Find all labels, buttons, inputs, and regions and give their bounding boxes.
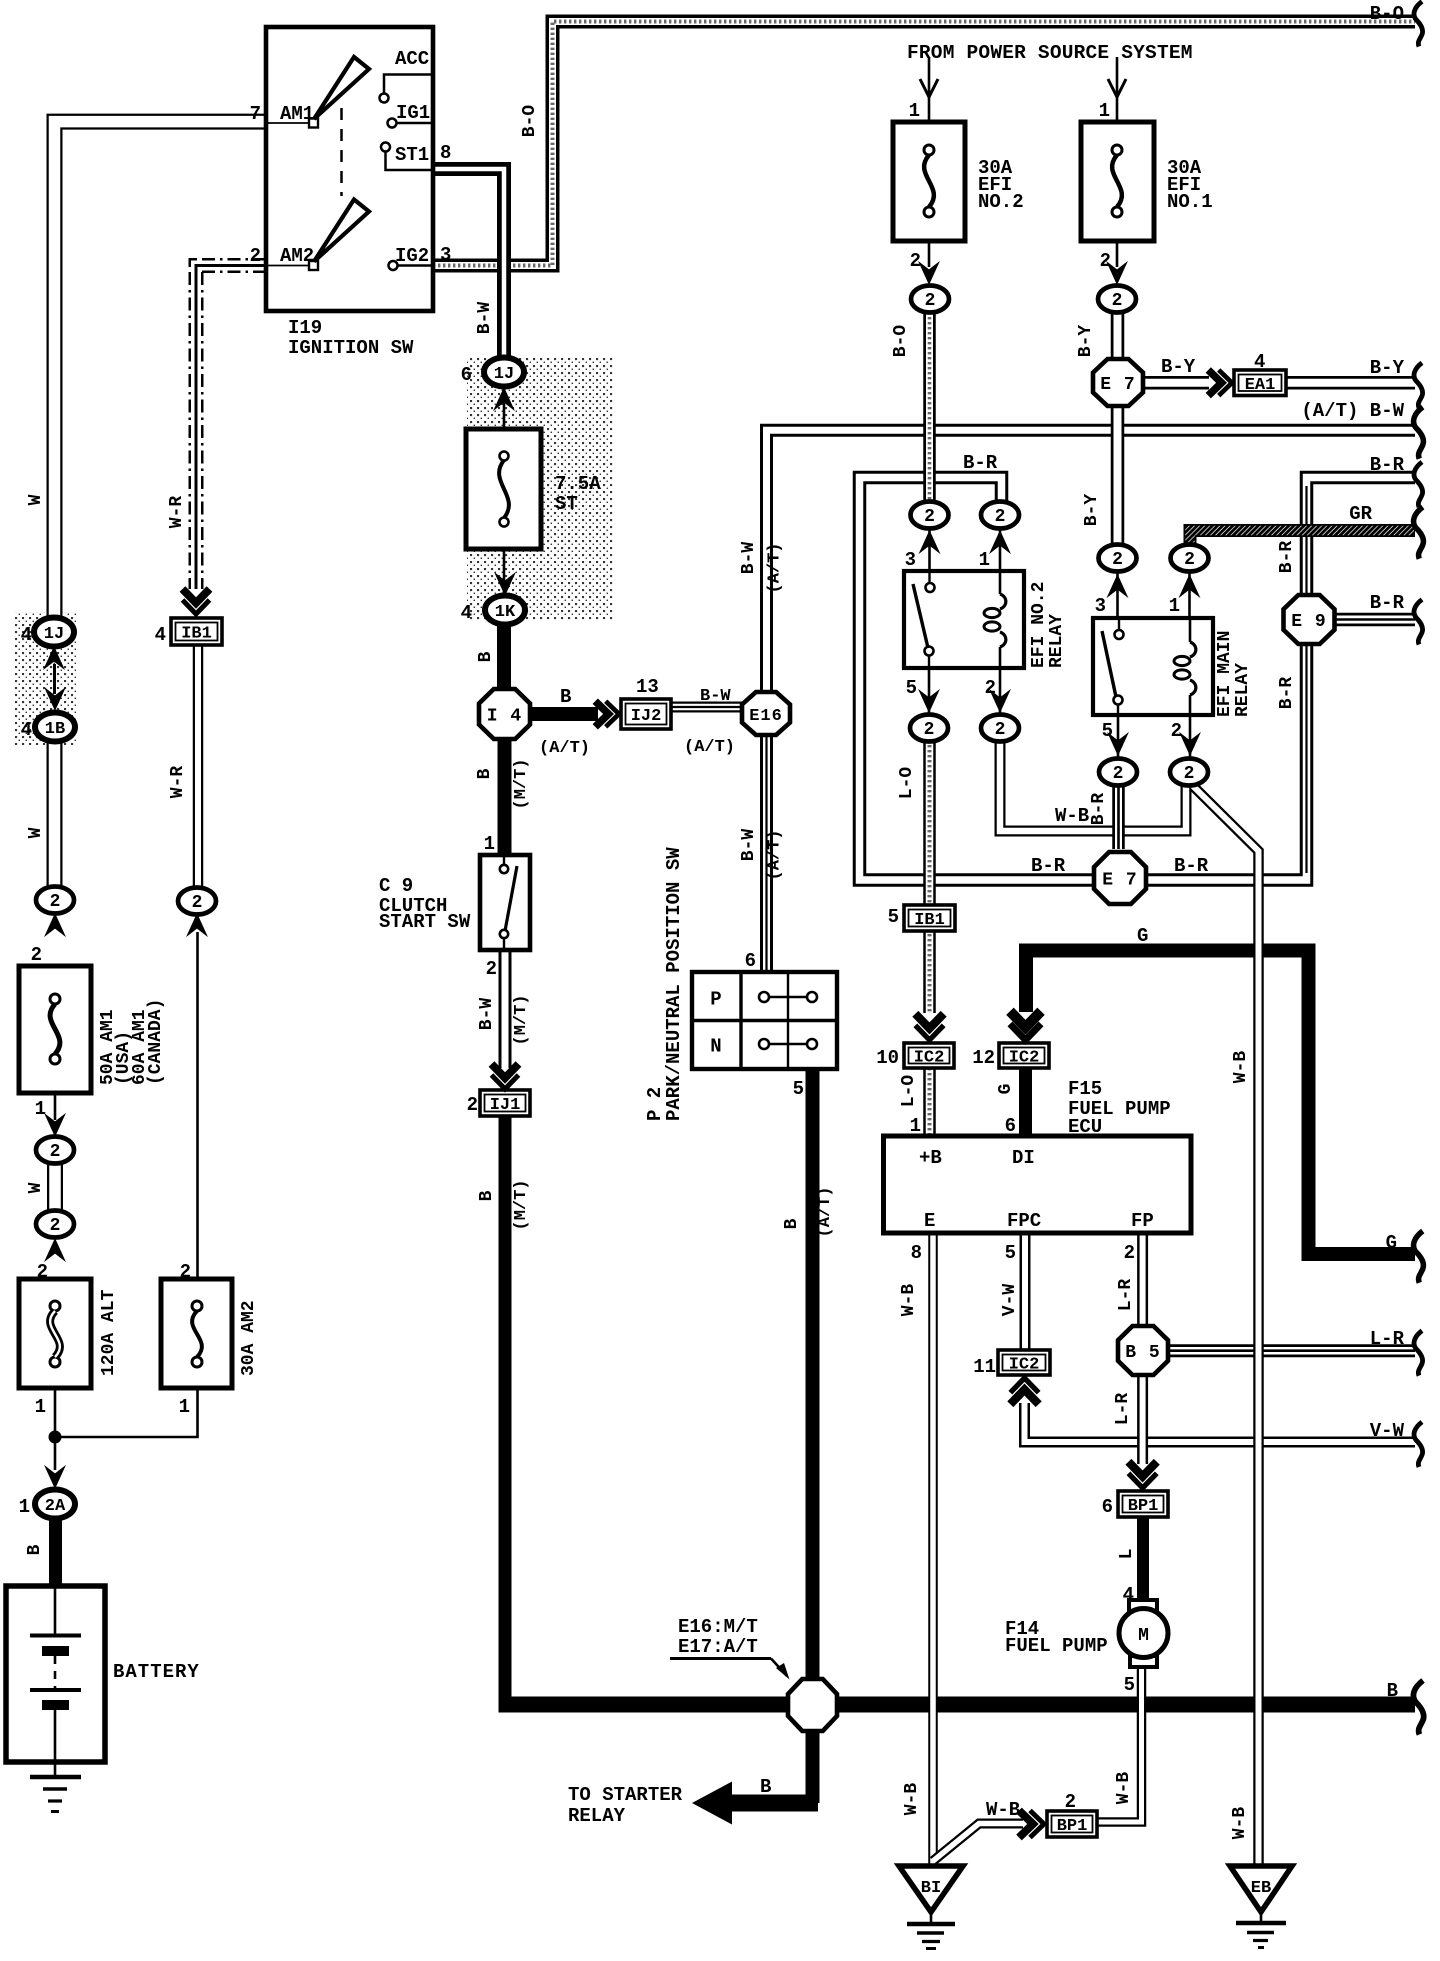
svg-text:1: 1 — [910, 1115, 921, 1137]
svg-text:GR: GR — [1349, 503, 1372, 525]
svg-text:W: W — [26, 1182, 46, 1193]
svg-text:(M/T): (M/T) — [512, 758, 531, 809]
svg-text:4: 4 — [21, 624, 32, 646]
svg-text:W-B: W-B — [899, 1284, 919, 1317]
svg-text:4: 4 — [21, 719, 32, 741]
svg-text:(A/T): (A/T) — [684, 738, 735, 757]
svg-text:B-Y: B-Y — [1370, 357, 1405, 379]
svg-text:M: M — [1138, 1626, 1149, 1646]
svg-text:W: W — [26, 827, 46, 838]
svg-text:B-O: B-O — [1370, 3, 1404, 25]
svg-text:+B: +B — [919, 1147, 942, 1169]
svg-text:2: 2 — [50, 892, 61, 912]
svg-text:2: 2 — [37, 1261, 48, 1283]
svg-text:2: 2 — [1171, 720, 1182, 742]
svg-text:RELAY: RELAY — [568, 1805, 626, 1827]
svg-text:G: G — [996, 1084, 1016, 1095]
svg-text:BI: BI — [921, 1879, 941, 1898]
svg-text:IB1: IB1 — [181, 625, 212, 644]
svg-text:2: 2 — [925, 291, 936, 311]
svg-text:B-R: B-R — [1089, 793, 1109, 826]
svg-text:B-W: B-W — [700, 687, 731, 706]
svg-text:E16: E16 — [749, 707, 783, 726]
svg-text:(A/T): (A/T) — [816, 1186, 835, 1237]
svg-text:START SW: START SW — [379, 911, 471, 933]
svg-text:3: 3 — [1095, 595, 1106, 617]
svg-text:EB: EB — [1251, 1879, 1271, 1898]
svg-text:DI: DI — [1012, 1147, 1035, 1169]
svg-text:V-W: V-W — [1000, 1284, 1020, 1317]
svg-text:8: 8 — [911, 1242, 922, 1264]
svg-text:1: 1 — [1169, 595, 1180, 617]
svg-text:2: 2 — [1124, 1242, 1135, 1264]
svg-text:1B: 1B — [45, 720, 65, 739]
svg-text:1: 1 — [35, 1098, 46, 1120]
svg-text:G: G — [1386, 1232, 1397, 1254]
svg-text:2: 2 — [924, 507, 935, 527]
svg-text:B: B — [1387, 1680, 1398, 1702]
svg-text:L-O: L-O — [897, 767, 917, 800]
svg-text:B: B — [477, 1190, 497, 1201]
svg-text:5: 5 — [1102, 720, 1113, 742]
svg-text:6: 6 — [745, 950, 756, 972]
svg-text:RELAY: RELAY — [1047, 614, 1067, 668]
svg-text:FROM POWER SOURCE SYSTEM: FROM POWER SOURCE SYSTEM — [907, 42, 1193, 64]
svg-text:6: 6 — [461, 364, 472, 386]
svg-text:L: L — [1117, 1549, 1137, 1560]
svg-text:B-Y: B-Y — [1161, 356, 1196, 378]
svg-text:2: 2 — [50, 1142, 61, 1162]
svg-text:G: G — [1137, 925, 1148, 947]
svg-text:I19: I19 — [288, 317, 322, 339]
svg-text:2: 2 — [31, 944, 42, 966]
svg-text:B: B — [475, 768, 495, 779]
svg-text:2: 2 — [1100, 250, 1111, 272]
svg-text:IC2: IC2 — [1009, 1049, 1040, 1068]
svg-text:2: 2 — [924, 720, 935, 740]
svg-text:120A ALT: 120A ALT — [99, 1289, 119, 1376]
svg-text:B-R: B-R — [1277, 677, 1297, 710]
svg-text:B: B — [476, 651, 496, 662]
svg-text:1: 1 — [484, 833, 495, 855]
svg-text:E 9: E 9 — [1291, 612, 1326, 632]
svg-text:B-R: B-R — [1370, 592, 1405, 614]
svg-text:3: 3 — [440, 244, 451, 266]
svg-text:B-R: B-R — [963, 452, 998, 474]
svg-text:B: B — [760, 1776, 771, 1798]
svg-text:13: 13 — [636, 676, 659, 698]
svg-text:4: 4 — [1123, 1584, 1134, 1606]
svg-text:12: 12 — [972, 1047, 995, 1069]
svg-text:1: 1 — [1099, 100, 1110, 122]
svg-text:5: 5 — [1005, 1242, 1016, 1264]
svg-text:1: 1 — [19, 1496, 30, 1518]
svg-text:V-W: V-W — [1370, 1420, 1405, 1442]
svg-text:W-B: W-B — [1230, 1807, 1250, 1840]
svg-text:2: 2 — [180, 1261, 191, 1283]
svg-text:1: 1 — [979, 549, 990, 571]
svg-text:B: B — [25, 1544, 45, 1555]
svg-text:(A/T) B-W: (A/T) B-W — [1301, 400, 1404, 422]
svg-text:E: E — [924, 1210, 935, 1232]
svg-text:B-O: B-O — [891, 325, 911, 358]
svg-text:L-R: L-R — [1113, 1393, 1133, 1426]
svg-text:2: 2 — [1112, 291, 1123, 311]
svg-text:B-W: B-W — [739, 542, 759, 575]
svg-text:(A/T): (A/T) — [766, 829, 785, 880]
svg-text:2: 2 — [1065, 1791, 1076, 1813]
svg-text:(A/T): (A/T) — [766, 542, 785, 593]
svg-text:2A: 2A — [45, 1497, 66, 1516]
svg-text:B-Y: B-Y — [1076, 325, 1096, 358]
svg-text:W-B: W-B — [1114, 1772, 1134, 1805]
svg-text:EA1: EA1 — [1245, 376, 1276, 395]
svg-text:ST: ST — [555, 493, 578, 515]
svg-text:IB1: IB1 — [914, 911, 945, 930]
svg-text:IJ1: IJ1 — [490, 1096, 521, 1115]
svg-text:1K: 1K — [495, 603, 516, 622]
svg-text:2: 2 — [995, 507, 1006, 527]
svg-text:B 5: B 5 — [1125, 1343, 1160, 1363]
svg-text:10: 10 — [876, 1047, 899, 1069]
svg-text:(CANADA): (CANADA) — [146, 999, 166, 1085]
svg-text:W: W — [26, 494, 46, 505]
svg-text:B: B — [560, 686, 571, 708]
svg-text:L-R: L-R — [1370, 1328, 1405, 1350]
svg-text:FUEL PUMP: FUEL PUMP — [1005, 1635, 1108, 1657]
svg-text:B-R: B-R — [1370, 454, 1405, 476]
svg-text:W-B: W-B — [1231, 1051, 1251, 1084]
svg-text:P: P — [710, 989, 721, 1011]
svg-text:B-Y: B-Y — [1082, 494, 1102, 527]
svg-text:30A AM2: 30A AM2 — [239, 1300, 259, 1376]
svg-text:B-R: B-R — [1031, 855, 1066, 877]
svg-text:L-O: L-O — [899, 1075, 919, 1108]
svg-text:IC2: IC2 — [1009, 1356, 1040, 1375]
svg-text:W-B: W-B — [902, 1783, 922, 1816]
svg-text:EFI NO.2: EFI NO.2 — [1029, 582, 1049, 668]
svg-text:L-R: L-R — [1116, 1279, 1136, 1312]
svg-text:RELAY: RELAY — [1233, 663, 1253, 717]
svg-text:B: B — [782, 1218, 802, 1229]
svg-text:4: 4 — [155, 624, 166, 646]
svg-text:BP1: BP1 — [1128, 1497, 1159, 1516]
svg-text:FP: FP — [1131, 1210, 1154, 1232]
svg-text:NO.2: NO.2 — [978, 191, 1024, 213]
svg-text:5: 5 — [1124, 1674, 1135, 1696]
svg-text:3: 3 — [905, 549, 916, 571]
svg-text:E16:M/T: E16:M/T — [678, 1616, 758, 1638]
svg-text:6: 6 — [1102, 1496, 1113, 1518]
svg-text:4: 4 — [1254, 351, 1265, 373]
svg-text:2: 2 — [50, 1216, 61, 1236]
svg-text:B-O: B-O — [520, 105, 540, 138]
svg-text:2: 2 — [1184, 764, 1195, 784]
svg-text:5: 5 — [888, 906, 899, 928]
svg-text:NO.1: NO.1 — [1167, 191, 1213, 213]
svg-text:11: 11 — [973, 1356, 996, 1378]
svg-text:8: 8 — [440, 142, 451, 164]
svg-text:B-W: B-W — [477, 998, 497, 1031]
svg-text:ECU: ECU — [1068, 1116, 1102, 1138]
svg-text:1: 1 — [909, 100, 920, 122]
svg-text:B-R: B-R — [1174, 855, 1209, 877]
svg-text:W-R: W-R — [167, 496, 187, 529]
svg-text:W-R: W-R — [168, 766, 188, 799]
svg-text:4: 4 — [461, 602, 472, 624]
svg-text:B-W: B-W — [739, 829, 759, 862]
svg-text:(A/T): (A/T) — [539, 739, 590, 758]
svg-text:I 4: I 4 — [487, 707, 522, 727]
svg-text:ACC: ACC — [395, 48, 429, 70]
svg-text:AM2: AM2 — [280, 245, 314, 267]
svg-text:2: 2 — [1113, 764, 1124, 784]
svg-text:5: 5 — [906, 677, 917, 699]
svg-text:1J: 1J — [494, 365, 514, 384]
svg-text:B-W: B-W — [475, 302, 495, 335]
svg-text:(M/T): (M/T) — [512, 994, 531, 1045]
svg-text:IG1: IG1 — [396, 102, 430, 124]
svg-text:FPC: FPC — [1007, 1210, 1041, 1232]
svg-text:1J: 1J — [44, 625, 64, 644]
svg-text:2: 2 — [467, 1094, 478, 1116]
svg-text:W-B: W-B — [986, 1799, 1020, 1821]
svg-text:2: 2 — [985, 677, 996, 699]
svg-text:2: 2 — [250, 245, 261, 267]
svg-text:IGNITION SW: IGNITION SW — [288, 337, 414, 359]
svg-text:1: 1 — [179, 1396, 190, 1418]
svg-text:IJ2: IJ2 — [631, 707, 662, 726]
svg-text:7.5A: 7.5A — [555, 473, 601, 495]
svg-text:ST1: ST1 — [395, 144, 429, 166]
svg-text:6: 6 — [1005, 1115, 1016, 1137]
svg-text:IC2: IC2 — [914, 1049, 945, 1068]
svg-text:E 7: E 7 — [1102, 871, 1137, 891]
svg-text:2: 2 — [1184, 550, 1195, 570]
svg-text:2: 2 — [486, 958, 497, 980]
svg-text:(M/T): (M/T) — [512, 1179, 531, 1230]
svg-text:5: 5 — [793, 1078, 804, 1100]
svg-text:1: 1 — [35, 1396, 46, 1418]
svg-text:2: 2 — [192, 893, 203, 913]
svg-text:TO STARTER: TO STARTER — [568, 1784, 683, 1806]
svg-text:EFI MAIN: EFI MAIN — [1215, 631, 1235, 717]
svg-text:B-R: B-R — [1277, 541, 1297, 574]
svg-text:2: 2 — [910, 250, 921, 272]
svg-text:2: 2 — [995, 720, 1006, 740]
svg-text:2: 2 — [1112, 550, 1123, 570]
svg-text:AM1: AM1 — [280, 103, 314, 125]
svg-text:F15: F15 — [1068, 1078, 1102, 1100]
svg-text:7: 7 — [250, 103, 261, 125]
svg-text:W-B: W-B — [1055, 805, 1089, 827]
svg-text:BP1: BP1 — [1057, 1817, 1088, 1836]
svg-text:E17:A/T: E17:A/T — [678, 1636, 758, 1658]
svg-text:PARK/NEUTRAL POSITION SW: PARK/NEUTRAL POSITION SW — [663, 847, 685, 1121]
svg-text:BATTERY: BATTERY — [113, 1661, 200, 1683]
svg-text:IG2: IG2 — [395, 245, 429, 267]
svg-text:C 9: C 9 — [379, 875, 413, 897]
svg-text:N: N — [710, 1036, 721, 1058]
svg-text:E 7: E 7 — [1100, 375, 1135, 395]
